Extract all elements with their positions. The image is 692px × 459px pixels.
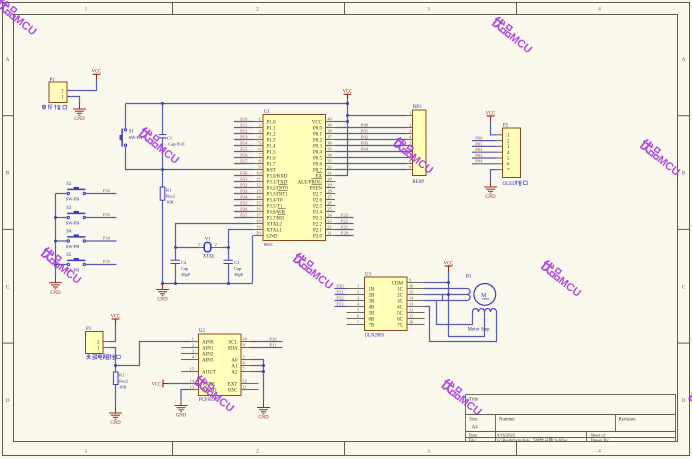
wire S2 to node P32 [86,188,117,193]
svg-text:P2.4: P2.4 [313,210,323,215]
svg-text:Cap: Cap [234,266,242,271]
pin stubs U2 AIN1-AIN3, AOUT [181,347,190,349]
svg-text:2: 2 [409,123,411,128]
svg-text:30pF: 30pF [234,272,244,277]
crystal Y1 XTAL [198,238,217,260]
svg-text:P1: P1 [50,78,56,83]
wire P0.6 to RP1 [335,163,407,165]
wire U1 P1.2 / node P12 [234,129,253,134]
svg-text:A: A [6,57,10,63]
wire RST to R1 [162,170,164,188]
svg-text:8051: 8051 [264,242,273,247]
svg-text:P34: P34 [103,236,111,241]
junction [346,114,349,117]
connector P2 OLED [497,123,521,177]
svg-text:11: 11 [256,177,260,182]
switch S1 SW-PB [120,129,127,147]
svg-text:M: M [481,293,487,299]
wire S5 to node P35 [86,259,117,264]
svg-text:P33: P33 [103,212,111,217]
svg-text:P20: P20 [341,231,349,236]
junction [161,168,164,171]
svg-text:38: 38 [327,129,331,134]
wire P2 pin5 node P03 [472,153,497,158]
svg-text:VCC: VCC [152,382,162,387]
wire U1 P1.7 / node P17 [234,159,253,164]
svg-text:2: 2 [258,123,260,128]
svg-text:GND: GND [176,414,187,419]
wire P0.0 to RP1 [335,122,407,127]
svg-text:9: 9 [243,343,245,348]
svg-text:XTAL2: XTAL2 [267,222,283,227]
svg-text:15: 15 [190,367,194,372]
svg-text:P04: P04 [361,146,369,151]
svg-text:3: 3 [258,129,260,134]
svg-text:33: 33 [327,159,331,164]
svg-text:15: 15 [409,290,413,295]
svg-text:PSEN: PSEN [310,186,323,191]
ground (P2) [484,181,497,200]
svg-text:P13: P13 [240,135,248,140]
svg-text:P23: P23 [336,301,344,306]
svg-text:P0.3: P0.3 [313,144,323,149]
svg-text:B: B [682,171,686,177]
svg-text:P37: P37 [240,213,248,218]
svg-text:R1: R1 [166,188,172,193]
svg-text:5B: 5B [369,311,376,316]
svg-text:GND: GND [110,421,121,426]
svg-text:EXT: EXT [228,382,238,387]
switch S3 SW-PB [56,206,86,226]
wire U1 P3.1 / node P31 [234,177,253,182]
svg-text:File:: File: [469,438,477,443]
svg-text:P1.0: P1.0 [267,120,277,125]
svg-text:21: 21 [327,231,331,236]
wire 1C to motor [425,288,467,290]
wire XTAL1 [229,230,254,248]
svg-text:Motor Step: Motor Step [468,328,490,333]
svg-text:XTAL: XTAL [203,254,215,259]
svg-text:P35: P35 [103,259,111,264]
wire P1 pin2 to VCC [67,80,97,91]
junction (divider node) [114,364,117,367]
svg-text:A4: A4 [472,426,478,431]
svg-text:P00: P00 [361,122,369,127]
wire switch rail [55,194,57,277]
svg-text:25: 25 [327,207,331,212]
wire U3 3B node P22 [335,295,347,300]
switch S2 SW-PB [56,182,86,202]
connector P1 [49,78,67,103]
wire U1 P3.7 / node P37 [234,213,253,218]
svg-text:Drawn By:: Drawn By: [591,438,610,443]
watermark [439,379,485,419]
svg-text:P2.2: P2.2 [313,222,323,227]
svg-text:29: 29 [327,183,331,188]
svg-text:4: 4 [598,448,601,454]
svg-text:P30: P30 [240,171,248,176]
wire C2 bottom [175,264,177,284]
wire P2 pin7 to GND [491,170,497,181]
svg-text:6: 6 [243,361,245,366]
svg-text:P3.4/T0: P3.4/T0 [267,198,283,203]
svg-text:R1: R1 [119,372,125,377]
svg-text:A1: A1 [231,364,238,369]
motor B1 Motor Step [466,275,497,333]
svg-text:30: 30 [327,177,331,182]
svg-text:1: 1 [192,337,194,342]
wire U1 P1.0 / node P10 [234,117,253,122]
wire U1 P3.0 / node P30 [234,171,253,176]
wire 3C to motor coil [425,300,467,302]
svg-text:P2.1: P2.1 [313,228,323,233]
wire VCC to P3 pin2 [109,324,116,341]
junction [161,102,164,105]
svg-text:Y1: Y1 [205,238,211,243]
svg-text:P33: P33 [240,189,248,194]
watermark [137,127,183,167]
svg-text:P12: P12 [240,129,248,134]
wire U1 P3.6 / node P36 [234,207,253,212]
svg-text:P31: P31 [240,177,248,182]
svg-text:AOUT: AOUT [202,370,216,375]
svg-text:30pF: 30pF [181,272,191,277]
svg-text:1C: 1C [397,287,404,292]
wire P0.3 to RP1 [335,140,407,145]
wire VCC rail (reset) [126,103,348,105]
svg-text:3: 3 [427,6,430,12]
svg-text:16: 16 [409,284,413,289]
svg-text:P3.7/RD: P3.7/RD [267,216,285,221]
wire GND rail (xtal) [163,283,253,285]
switch S4 SW-PB [56,230,86,250]
svg-text:C: C [6,284,10,290]
svg-text:A0: A0 [231,358,238,363]
wire P0.1 to RP1 [335,128,407,133]
svg-text:G:\BaiduSyncdisk\..5月份习题.SchDo: G:\BaiduSyncdisk\..5月份习题.SchDoc [497,437,568,444]
wire S1 bottom [126,147,254,170]
svg-text:P01: P01 [361,128,369,133]
svg-text:7B: 7B [369,323,376,328]
svg-text:SDA: SDA [227,346,237,351]
svg-text:P1.7: P1.7 [267,162,277,167]
watermark [391,137,437,177]
svg-text:9: 9 [258,165,260,170]
svg-text:B1: B1 [466,275,472,280]
svg-text:P2.0: P2.0 [313,234,323,239]
svg-text:B: B [6,171,10,177]
wire C1 bottom [162,138,164,169]
svg-text:19: 19 [256,225,260,230]
svg-text:2: 2 [256,6,259,12]
wire P2 pin2 node P00 [472,136,497,141]
svg-text:3: 3 [192,349,194,354]
svg-text:P36: P36 [240,207,248,212]
svg-text:13: 13 [190,385,194,390]
wire U1 GND pin down [252,236,254,284]
wire S3 to node P33 [86,212,117,217]
svg-text:2: 2 [256,448,259,454]
svg-text:A: A [682,57,686,63]
svg-text:1: 1 [85,6,88,12]
svg-text:12: 12 [243,379,247,384]
svg-text:SW-PB: SW-PB [66,244,80,249]
svg-text:P22: P22 [341,219,349,224]
svg-text:P2.6: P2.6 [313,198,323,203]
svg-text:10: 10 [409,320,413,325]
svg-text:3C: 3C [397,299,404,304]
ground (AGND) [175,400,188,419]
watermark [539,260,585,300]
wire S1 top [125,104,127,129]
svg-text:7C: 7C [397,323,404,328]
svg-text:6C: 6C [397,317,404,322]
svg-text:10K: 10K [119,384,128,389]
wire R1 to GND rail [162,200,164,283]
svg-text:3: 3 [427,448,430,454]
svg-text:SW-PB: SW-PB [66,197,80,202]
switch S5 SW-PB [56,253,86,273]
svg-text:3: 3 [409,129,411,134]
junction [262,370,265,373]
svg-text:D: D [682,398,686,404]
wire P2 pin6 node P04 [472,159,497,164]
wire P0.7 to RP1 [335,169,407,171]
junction [227,282,230,285]
svg-text:A2: A2 [231,370,238,375]
svg-text:S4: S4 [66,230,72,235]
svg-text:RST: RST [267,168,276,173]
svg-text:P00: P00 [475,136,483,141]
svg-text:P10: P10 [269,336,277,341]
watermark [638,139,684,179]
svg-text:4B: 4B [369,305,376,310]
svg-text:P1.4: P1.4 [267,144,277,149]
watermark [686,390,692,430]
wire U1 P22 [335,219,354,224]
svg-text:P32: P32 [240,183,248,188]
svg-text:AIN0: AIN0 [202,340,214,345]
svg-text:GND: GND [485,195,496,200]
wire U1 P1.6 / node P16 [234,153,253,158]
wire U1 P1.1 / node P11 [234,123,253,128]
svg-text:32: 32 [327,165,331,170]
wire U1 P1.5 / node P15 [234,147,253,152]
wire U1 P20 [335,231,354,236]
power port VCC (motor) [444,261,454,271]
wire SCL node P10 [251,336,283,341]
svg-text:2: 2 [357,290,359,295]
pin stubs Y1 [199,247,221,249]
title block [466,395,676,444]
svg-text:5: 5 [258,141,260,146]
wire C2 top [175,248,177,260]
svg-text:GND: GND [258,416,269,421]
capacitor C2 Cap 30pF [171,260,191,277]
wire node to U2 AIN0 [116,342,190,366]
junction [262,364,265,367]
label guangmin dianzu jiekou (photoresistor interface) [86,354,120,359]
wire P0.5 to RP1 [335,157,407,159]
svg-text:C2: C2 [181,260,186,265]
capacitor C3 Cap 30pF [224,260,244,277]
svg-text:ULN2003: ULN2003 [365,333,385,338]
resistor R1 Res2 10K (divider) [113,372,118,385]
watermark [39,247,85,287]
junction [161,282,164,285]
label dianyuan-jiekou (power interface) [42,105,67,110]
wire 4C to motor coil [425,307,497,342]
svg-text:SW-PB: SW-PB [66,221,80,226]
svg-text:P3.0/RXD: P3.0/RXD [267,174,288,179]
wire P0.2 to RP1 [335,134,407,139]
junction [447,281,450,284]
svg-text:RP1: RP1 [413,105,422,110]
wire R1 to GND [115,385,117,408]
svg-text:3B: 3B [369,299,376,304]
svg-text:7: 7 [357,320,359,325]
svg-text:P0.0: P0.0 [313,126,323,131]
svg-text:P01: P01 [475,141,483,146]
wire U3 1B node P20 [335,283,347,288]
svg-text:7: 7 [243,367,245,372]
svg-text:4C: 4C [397,305,404,310]
svg-text:2: 2 [215,242,217,247]
wire U1 P23 [335,213,354,218]
connector P3 photoresistor [86,327,110,353]
svg-text:P35: P35 [240,201,248,206]
svg-text:GND: GND [267,234,278,239]
svg-text:P03: P03 [475,153,483,158]
wire A0/A1/A2 to GND [251,360,264,402]
svg-text:1: 1 [85,448,88,454]
svg-text:AIN3: AIN3 [202,358,214,363]
svg-text:12: 12 [409,308,413,313]
wire U1 P3.5 / node P35 [234,201,253,206]
svg-text:5C: 5C [397,311,404,316]
svg-text:18: 18 [256,219,260,224]
svg-text:P3.3/INT1: P3.3/INT1 [267,192,289,197]
wire S4 to node P34 [86,236,117,241]
svg-text:P21: P21 [341,225,349,230]
junction [346,102,349,105]
svg-text:1: 1 [409,111,411,116]
pin stubs U2 EXT OSC [251,383,259,385]
svg-text:3: 3 [357,296,359,301]
junction [346,120,349,123]
svg-text:15: 15 [256,201,260,206]
svg-text:10K: 10K [166,200,175,205]
svg-text:11: 11 [409,314,413,319]
svg-text:P02: P02 [475,147,483,152]
svg-text:31: 31 [327,171,331,176]
svg-text:P04: P04 [475,159,483,164]
svg-text:P15: P15 [240,147,248,152]
wire U1 VCC pin [335,121,348,123]
mcu U1 8051 [253,110,335,247]
capacitor C1 Cap Pol1 [159,135,167,138]
power port VCC (P3) [111,314,121,324]
svg-text:OLED: OLED [503,182,517,187]
svg-text:5: 5 [357,308,359,313]
svg-text:P3: P3 [86,327,92,332]
svg-text:P2.3: P2.3 [313,216,323,221]
ground (A0-A2) [257,402,270,421]
svg-text:P21: P21 [336,289,344,294]
svg-text:P11: P11 [240,123,248,128]
svg-text:4: 4 [598,6,601,12]
wire P0.4 to RP1 [335,146,407,151]
wire P2 pin3 node P01 [472,141,497,146]
svg-text:Res2: Res2 [119,378,128,383]
svg-text:22: 22 [327,225,331,230]
wire U3 2B node P21 [335,289,347,294]
svg-text:6: 6 [357,314,359,319]
svg-text:P16: P16 [240,153,248,158]
power port VCC near P1 [92,70,102,80]
svg-text:C: C [682,284,686,290]
svg-text:13: 13 [256,189,260,194]
wire crystal row [176,247,200,249]
svg-text:1: 1 [198,242,200,247]
svg-text:P11: P11 [270,342,278,347]
svg-text:Cap Pol1: Cap Pol1 [168,142,185,147]
wire U1 P3.3 / node P33 [234,189,253,194]
svg-text:10: 10 [243,337,247,342]
svg-text:Cap: Cap [181,266,189,271]
svg-text:P17: P17 [240,159,248,164]
svg-text:P2: P2 [503,123,509,128]
watermark [0,0,40,38]
wire AGND to GND [181,390,190,400]
svg-text:P1.1: P1.1 [267,126,277,131]
watermark [192,375,238,415]
svg-text:U2: U2 [199,329,205,334]
svg-text:P23: P23 [341,213,349,218]
ground (divider) [109,407,122,426]
svg-text:P0.5: P0.5 [313,156,323,161]
svg-text:U1: U1 [264,110,270,115]
wire XTAL2 [176,224,254,248]
svg-text:S2: S2 [66,182,72,187]
junction [54,263,57,266]
svg-text:AIN2: AIN2 [202,352,214,357]
power port VCC (U1) [343,90,353,100]
svg-text:XTAL1: XTAL1 [267,228,283,233]
svg-text:VCC: VCC [312,120,323,125]
svg-text:AIN1: AIN1 [202,346,214,351]
svg-text:2C: 2C [397,293,404,298]
svg-text:Number: Number [499,417,515,422]
svg-text:P0.1: P0.1 [313,132,323,137]
svg-text:RESP: RESP [413,180,425,185]
resistor R1 Res2 10K [160,187,165,200]
adc U2 PCF8591 [190,329,251,403]
junction [227,246,230,249]
svg-text:P1.5: P1.5 [267,150,277,155]
svg-text:Res2: Res2 [166,194,175,199]
svg-text:10: 10 [256,171,260,176]
svg-text:28: 28 [327,189,331,194]
wire VCC to VREF [168,383,189,385]
svg-text:1: 1 [258,117,260,122]
svg-text:P22: P22 [336,295,344,300]
svg-text:P34: P34 [240,195,248,200]
watermark [490,16,536,56]
wire U1 P3.4 / node P34 [234,195,253,200]
wire SDA node P11 [251,342,283,347]
wire C3 bottom [228,264,230,284]
